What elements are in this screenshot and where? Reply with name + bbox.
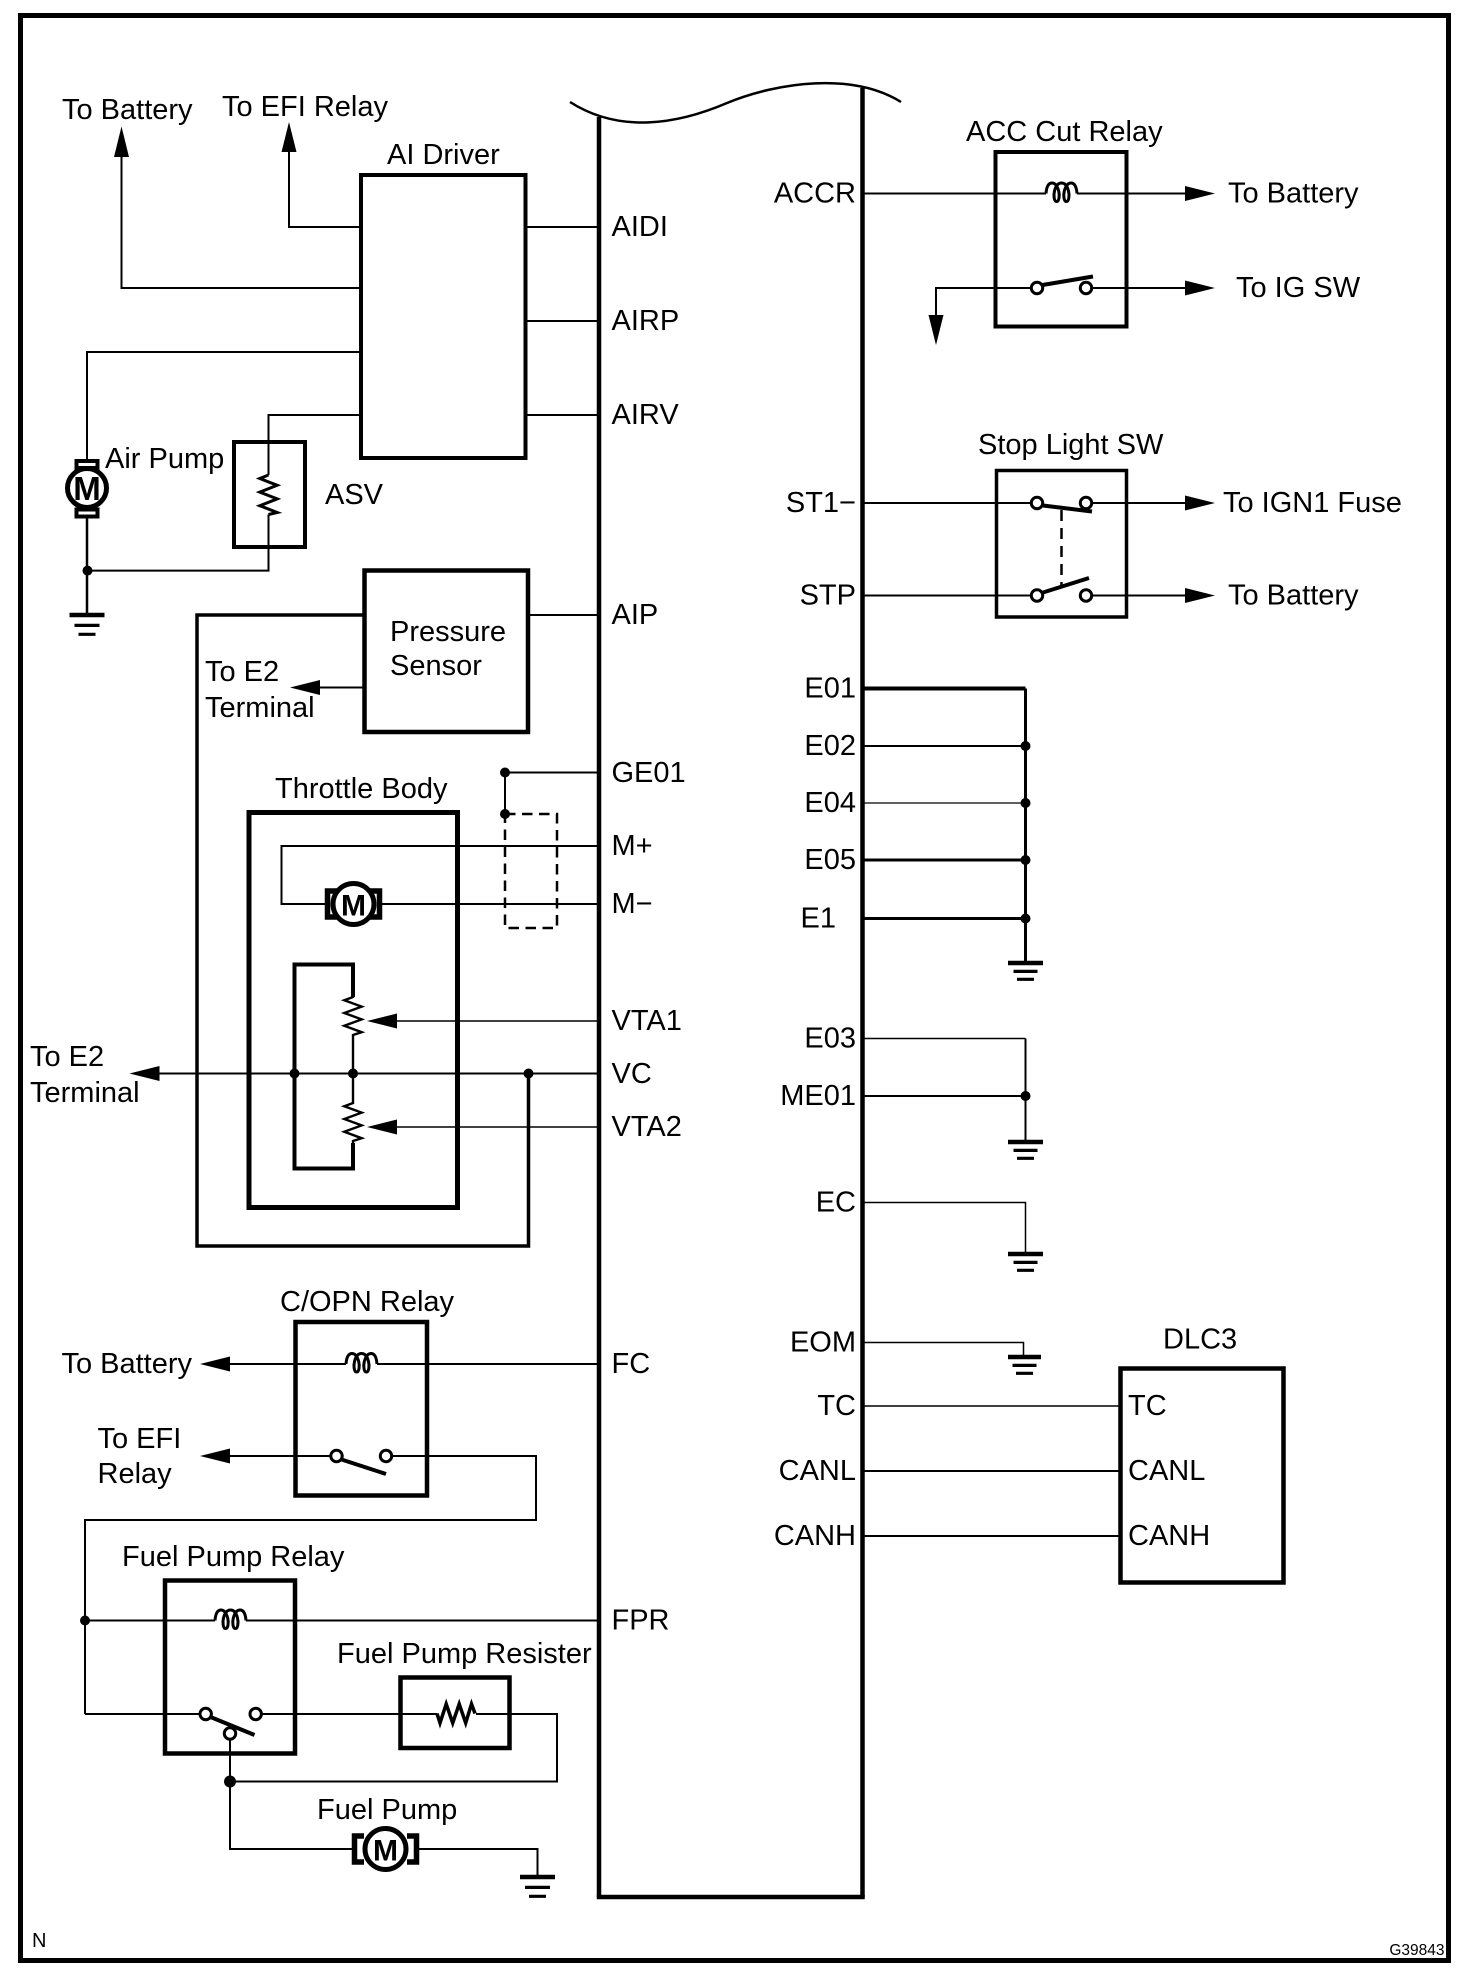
wire VC with To E2 arrow [130,1066,160,1081]
wire FC left part [228,1363,346,1365]
ACC relay coil [1046,183,1077,202]
wire STP left [864,595,1031,597]
svg-text:Air Pump: Air Pump [105,443,224,475]
To Battery right-arrow (STP) [1185,588,1215,603]
fuel pump motor right bracket [407,1836,417,1862]
To Battery left-arrow (FC) [200,1357,230,1372]
wire E03 [864,1038,1026,1040]
ASV resistor zigzag [268,442,270,547]
wire VC [158,1073,600,1075]
fuel pump relay switch lower contact [224,1728,235,1739]
ST1 switch blade [1043,506,1092,512]
svg-text:To E2: To E2 [30,1041,104,1073]
ST1 switch right contact [1080,497,1091,508]
wire fuel pump to ground [418,1849,538,1875]
svg-text:Terminal: Terminal [205,692,315,724]
svg-text:E04: E04 [804,787,856,819]
svg-text:To EFI: To EFI [98,1423,182,1455]
svg-text:ACC Cut Relay: ACC Cut Relay [966,116,1163,148]
svg-text:M−: M− [612,888,653,920]
wire ME01 [864,1095,1026,1097]
svg-text:C/OPN Relay: C/OPN Relay [280,1286,455,1318]
ground E01 chain [1008,963,1043,979]
wire arrow to pressure sensor [318,687,365,689]
junction dot GE01 [500,768,510,778]
wire AIP [528,614,600,616]
wire C/OPN switch left [228,1455,331,1457]
C/OPN switch left contact [331,1450,342,1461]
junction dot E05 [1021,855,1031,865]
svg-text:E1: E1 [801,903,836,935]
To Battery right-arrow (ACCR) [1185,186,1215,201]
svg-text:G39843: G39843 [1389,1942,1444,1959]
wire To EFI Relay to AI Driver [289,150,361,227]
wire FPR right part [246,1620,600,1622]
throttle position sensor body [295,965,354,1169]
junction dot fuel pump [224,1776,236,1788]
svg-text:Relay: Relay [98,1458,173,1490]
wire ACCR right part [1077,193,1187,195]
svg-text:STP: STP [800,580,856,612]
fuel pump relay switch blade [211,1717,255,1735]
wire STP right [1092,595,1187,597]
STP switch left contact [1031,590,1042,601]
svg-text:AIRP: AIRP [612,305,680,337]
svg-text:E01: E01 [804,673,856,705]
svg-text:Stop Light SW: Stop Light SW [978,429,1164,461]
wire ST1 left [864,502,1031,504]
VTA2 left-arrow [367,1120,397,1135]
Stop Light SW box [997,471,1127,618]
ground EOM [1008,1357,1041,1373]
wire junction to ASV bottom [88,547,269,571]
ground fuel pump [520,1877,555,1896]
svg-text:VTA1: VTA1 [612,1005,682,1037]
ASV box [234,442,305,547]
Throttle Body box [249,813,458,1208]
ECU main block left edge [597,117,602,1897]
svg-text:To E2: To E2 [205,656,279,688]
svg-text:M+: M+ [612,830,653,862]
ACC switch blade [1043,277,1094,286]
wire TC [864,1405,1120,1407]
wire ACC switch left with down arrow [936,288,996,317]
C/OPN Relay box [296,1322,428,1496]
svg-text:CANH: CANH [774,1520,856,1552]
wire AI Driver to air pump [87,352,361,459]
svg-text:ME01: ME01 [780,1080,856,1112]
To IG SW right-arrow [1185,281,1215,296]
ST1 switch left contact [1031,497,1042,508]
To E2 left-arrow upper [290,680,320,695]
junction dot E02 [1021,741,1031,751]
down-arrow to ground side [929,315,944,345]
ACC switch left contact [1031,282,1042,293]
ground EC [1008,1254,1043,1270]
svg-text:EC: EC [816,1187,856,1219]
svg-text:Fuel Pump Resister: Fuel Pump Resister [337,1638,592,1670]
svg-text:TC: TC [817,1390,856,1422]
AI Driver box [361,175,526,458]
wire VTA1 [395,1020,600,1022]
junction dot shield [500,809,510,819]
shield dashed box [505,814,557,928]
ECU torn-edge wave [570,83,901,122]
svg-text:Sensor: Sensor [390,650,482,682]
wire To Battery to AI Driver [122,155,362,288]
wire ST1 right [1092,502,1187,504]
ACC Cut Relay box [996,152,1127,327]
svg-text:M: M [373,1835,398,1868]
wire M+ [282,846,601,904]
throttle motor left bracket [328,891,338,917]
wire CANH [864,1535,1120,1537]
junction dot ME01 [1021,1091,1031,1101]
wire GE01 [505,772,600,774]
svg-text:CANH: CANH [1128,1520,1210,1552]
junction dot FPR [80,1616,90,1626]
wire EC [864,1203,1026,1253]
STP switch right contact [1080,590,1091,601]
wire FC right part [377,1363,600,1365]
fuel pump relay switch right contact [250,1708,261,1719]
svg-text:To Battery: To Battery [1228,580,1359,612]
ground ME01 [1008,1142,1043,1158]
wire VTA2 [395,1126,600,1128]
junction dot E04 [1021,798,1031,808]
wire E01 [864,687,1026,691]
wire lower contact down to fuel pump [230,1740,353,1850]
svg-text:Terminal: Terminal [30,1077,140,1109]
C/OPN switch right contact [380,1450,391,1461]
Fuel Pump Relay box [165,1581,295,1754]
wire ACCR left part [864,193,1046,195]
svg-text:To IGN1 Fuse: To IGN1 Fuse [1223,487,1402,519]
svg-text:EOM: EOM [790,1327,856,1359]
ECU main block right edge [860,88,865,1897]
wire AIRV [524,414,600,416]
svg-text:ASV: ASV [325,479,384,511]
air pump motor circle [68,469,107,508]
wire AI Driver to ASV [269,415,362,442]
svg-text:To Battery: To Battery [61,1348,192,1380]
throttle motor circle [333,884,374,925]
wire CANL [864,1470,1120,1472]
svg-text:TC: TC [1128,1390,1167,1422]
svg-text:AIP: AIP [612,599,659,631]
STP switch blade [1043,578,1089,593]
svg-text:To IG SW: To IG SW [1236,272,1361,304]
svg-text:AI Driver: AI Driver [387,139,500,171]
VTA1 left-arrow [367,1014,397,1029]
svg-text:To Battery: To Battery [62,94,193,126]
wire fuel pump relay switch left [85,1713,200,1715]
wire E02 [864,745,1026,747]
wire resister to fuel pump junction [230,1714,557,1782]
svg-text:E05: E05 [804,844,856,876]
svg-text:CANL: CANL [1128,1455,1205,1487]
wire M- [380,903,600,905]
svg-text:ST1−: ST1− [786,487,856,519]
Pressure Sensor box [365,571,529,733]
svg-text:E03: E03 [804,1023,856,1055]
wire box edge to left contact [996,287,1032,289]
wire ACC switch right [1092,287,1187,289]
ground bus vertical E01-E1 [1024,689,1027,962]
svg-text:N: N [32,1930,46,1952]
Fuel Pump Resister box [401,1678,510,1749]
fuel pump relay switch left contact [200,1708,211,1719]
ground air pump [70,615,105,634]
svg-text:Pressure: Pressure [390,616,506,648]
To IGN1 Fuse right-arrow [1185,496,1215,511]
junction dot air pump ground [83,566,93,576]
fuel pump relay coil [215,1610,246,1629]
svg-text:Fuel Pump Relay: Fuel Pump Relay [122,1541,345,1573]
svg-text:VC: VC [612,1058,652,1090]
junction dot VC pot left [290,1069,300,1079]
switch link dashed line [1060,510,1063,585]
vertical E03 to ME01 [1025,1039,1027,1141]
VTA2 resistor zigzag [344,1074,361,1171]
wire E1 [864,917,1026,920]
To EFI Relay left-arrow [200,1449,230,1464]
svg-text:AIRV: AIRV [612,399,680,431]
wire AIDI [524,226,600,228]
wire AIRP [524,320,600,322]
fuel pump motor circle [365,1829,406,1870]
shield link wire [504,773,506,815]
junction dot VC pot right [348,1069,358,1079]
svg-text:To Battery: To Battery [1228,178,1359,210]
VTA1 resistor zigzag [344,963,361,1074]
svg-text:M: M [341,890,366,923]
wire E04 [864,802,1026,804]
wire FPR left part [85,1620,215,1622]
To Battery up-arrow [114,127,129,158]
svg-text:M: M [73,470,101,507]
DLC3 box [1121,1369,1284,1583]
svg-text:AIDI: AIDI [612,211,668,243]
svg-text:To EFI Relay: To EFI Relay [222,91,388,123]
svg-text:CANL: CANL [779,1455,856,1487]
junction dot VC right branch [524,1069,534,1079]
svg-text:VTA2: VTA2 [612,1111,682,1143]
ECU main block bottom edge [597,1895,865,1900]
air pump motor bottom terminal [77,510,98,517]
svg-text:Throttle Body: Throttle Body [275,773,448,805]
junction dot E1 [1021,914,1031,924]
svg-text:DLC3: DLC3 [1163,1324,1237,1356]
air pump motor top terminal [77,461,98,468]
svg-text:Fuel Pump: Fuel Pump [317,1794,457,1826]
wire EOM [864,1343,1024,1356]
wire switch to resister [262,1713,437,1715]
svg-text:GE01: GE01 [612,757,686,789]
fuel pump motor left bracket [355,1836,365,1862]
svg-text:ACCR: ACCR [774,178,856,210]
fuel pump resister zigzag [437,1704,475,1723]
VC loop wire (left big rectangle) [197,615,529,1246]
C/OPN relay coil [346,1354,377,1373]
ACC switch right contact [1080,282,1091,293]
svg-text:E02: E02 [804,730,856,762]
C/OPN switch blade [342,1460,387,1475]
svg-text:FC: FC [612,1348,651,1380]
wire C/OPN switch to fuel pump relay [85,1456,536,1714]
wire E05 [864,859,1026,862]
throttle motor right bracket [370,891,380,917]
svg-text:FPR: FPR [612,1605,670,1637]
To EFI Relay up-arrow [282,122,297,152]
wire air pump to ground junction [86,516,89,613]
